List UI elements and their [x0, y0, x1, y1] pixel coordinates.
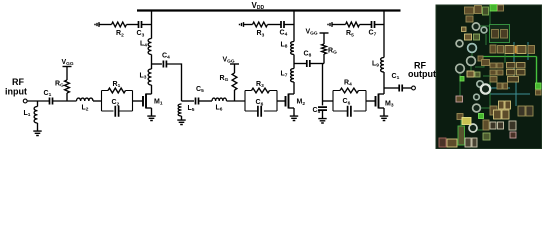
capacitor C7	[372, 21, 375, 28]
capacitor C2	[115, 106, 118, 117]
wire L4 to tap	[151, 55, 153, 65]
inductor L5	[178, 104, 181, 116]
node VDD rail	[137, 9, 401, 11]
wire C1 to L2	[53, 100, 77, 102]
VGG2 supply bar	[230, 63, 239, 65]
wire RG3 to tap line	[323, 54, 325, 64]
wire RG2 to gate line	[234, 90, 236, 101]
ground below M1	[147, 114, 155, 121]
resistor R4	[253, 22, 268, 27]
wire L6 to network 2	[227, 100, 246, 102]
resistor RG2	[232, 73, 237, 90]
wire C4 down to gate line	[166, 64, 181, 101]
wire C5 to L6	[199, 100, 213, 102]
capacitor C9	[318, 107, 327, 110]
capacitor C6b	[348, 106, 351, 117]
wire C8 to RG3 node	[310, 63, 324, 65]
capacitor C5	[196, 98, 199, 105]
wire network to M1 gate	[133, 100, 144, 102]
resistor R2	[112, 22, 127, 27]
wire tap2 to L7	[293, 64, 295, 69]
wire VGG2 to RG2	[234, 64, 236, 73]
wire L8 to tap2	[293, 55, 295, 64]
wire rail to L4	[151, 11, 153, 39]
transistor M3	[376, 94, 385, 109]
inductor L7	[291, 69, 294, 83]
port RF output	[412, 86, 416, 90]
wire rail to L8	[293, 11, 295, 42]
wire C9 to ground	[322, 110, 324, 116]
wire R5 to C7	[360, 24, 372, 26]
wire gnd to R4	[244, 24, 253, 26]
svg-text:input: input	[5, 87, 27, 97]
wire VGG1 to RG1	[66, 67, 68, 81]
wire C10 to output port	[402, 87, 411, 89]
wire R3C6 network frame	[245, 91, 277, 112]
die micrograph	[436, 5, 542, 149]
ground below C9	[318, 116, 326, 123]
ground RC3	[328, 22, 332, 27]
wire L2 to R1C2 network	[93, 100, 102, 102]
wire M2 source down	[293, 108, 295, 114]
inductor L2	[77, 98, 94, 101]
resistor R5	[346, 22, 360, 27]
inductor L9	[381, 58, 384, 73]
wire corner to C5	[182, 100, 195, 102]
wire tap to L3	[151, 64, 153, 69]
svg-text:RF: RF	[12, 77, 24, 87]
wire gnd to R2	[99, 24, 112, 26]
transistor M2	[286, 94, 295, 109]
inductor L3	[148, 69, 151, 85]
resistor RG1	[65, 80, 70, 93]
wire network to M3 gate	[366, 100, 376, 102]
wire L1 to ground	[37, 123, 39, 129]
svg-text:output: output	[408, 69, 436, 79]
port RF input	[23, 99, 27, 103]
ground RC2	[240, 22, 244, 27]
inductor L8	[291, 42, 294, 55]
wire gate3 to C9	[322, 101, 324, 105]
wire VGG3 to RG3	[323, 33, 325, 44]
wire to network 3	[323, 100, 334, 102]
VGG3 supply bar	[320, 32, 329, 34]
wire node down to gate line 3	[322, 64, 324, 102]
wire M2 drain up	[293, 82, 295, 94]
wire RG1 to node A	[66, 93, 68, 101]
wire R4 to C4b	[268, 24, 282, 26]
inductor L6	[212, 98, 227, 101]
wire tap to C4	[152, 63, 162, 65]
ground below M2	[290, 114, 298, 121]
inductor L1	[34, 107, 37, 124]
capacitor C4b	[281, 21, 284, 28]
wire L5 to ground	[181, 116, 183, 118]
resistor R3	[252, 88, 270, 93]
wire R2 to C3	[127, 24, 139, 26]
wire input to C1	[27, 100, 49, 102]
wire M1 drain up	[151, 85, 153, 94]
resistor R1	[108, 88, 126, 93]
ground below L5	[177, 118, 185, 125]
capacitor C3	[139, 21, 142, 28]
resistor R4b	[340, 88, 359, 93]
wire node A to L1	[37, 101, 39, 107]
wire tap2 to C8	[294, 63, 307, 65]
capacitor C4	[163, 61, 166, 68]
wire M3 drain up	[383, 72, 385, 94]
ground below L1	[33, 129, 41, 136]
wire C7 to drain line	[375, 24, 385, 26]
ground RC1	[95, 22, 99, 27]
capacitor C1	[50, 98, 53, 105]
capacitor C8	[307, 60, 310, 67]
wire drain to C10	[384, 87, 399, 89]
inductor L4	[148, 39, 151, 55]
transistor M1	[143, 94, 152, 109]
wire gnd to R5	[332, 24, 346, 26]
wire R4C6 network frame	[333, 91, 366, 112]
resistor RG3	[322, 44, 327, 54]
wire R1C2 network frame	[102, 91, 133, 112]
capacitor C10	[399, 85, 402, 92]
wire C4b to drain line	[284, 24, 294, 26]
ground below M3	[380, 114, 388, 121]
capacitor C6	[258, 106, 261, 117]
wire rail to L9	[383, 11, 385, 58]
wire network to M2 gate	[277, 100, 286, 102]
wire C3 to drain line	[142, 24, 152, 26]
wire M3 source down	[383, 108, 385, 114]
wire M1 source down	[151, 108, 153, 114]
VGG1 supply bar	[63, 66, 72, 68]
